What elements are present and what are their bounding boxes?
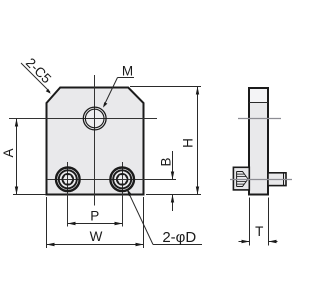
chamfer edge line in side view (249, 102, 268, 104)
front view plate body (47, 88, 144, 195)
left hole fill (56, 168, 80, 192)
centerline horizontal of lower holes (47, 179, 176, 181)
hex socket profile (236, 172, 238, 187)
dimension B (158, 151, 176, 211)
hole M tapped hole fill (83, 107, 106, 130)
hole M axis line in side view (238, 118, 281, 120)
svg-text:2-φD: 2-φD (162, 229, 196, 246)
label M with leader (103, 64, 134, 108)
chamfer band in side view (250, 89, 267, 102)
svg-text:P: P (90, 209, 99, 224)
right hole fill (110, 168, 134, 192)
dimension A (1, 119, 46, 195)
dimension H (130, 87, 201, 195)
svg-text:W: W (90, 229, 103, 244)
svg-text:H: H (181, 138, 196, 148)
centerline horizontal of hole M (9, 118, 157, 120)
bolt centerline in side view (230, 179, 292, 181)
centerline vertical of plate/hole M (94, 75, 96, 206)
right counterbore hole with socket screw (110, 168, 134, 192)
side view plate body (238, 88, 281, 195)
bolt thread stub (268, 173, 286, 186)
dimension W (47, 197, 144, 248)
dimension P (68, 209, 123, 226)
label 2-phiD with leader (127, 188, 202, 246)
dimension T (239, 198, 278, 246)
centerline vertical of left hole (67, 162, 69, 227)
svg-text:T: T (255, 224, 263, 239)
hole M tapped hole (83, 107, 106, 130)
bolt head (socket head cap screw) (233, 167, 249, 190)
svg-text:A: A (1, 148, 16, 157)
svg-text:M: M (122, 64, 133, 79)
left counterbore hole with socket screw (56, 168, 80, 192)
svg-text:B: B (158, 157, 173, 166)
label 2-C5 with leader (21, 55, 54, 94)
centerline vertical of right hole (122, 162, 124, 227)
